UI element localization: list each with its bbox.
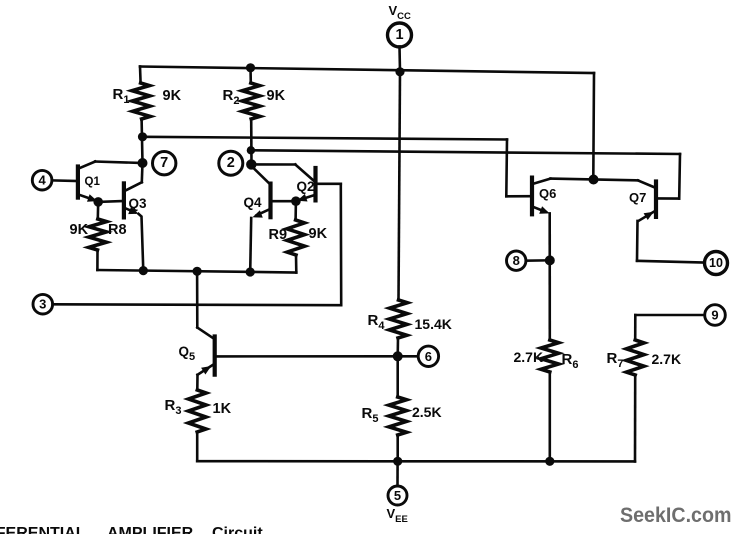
svg-text:2.7K: 2.7K bbox=[652, 351, 682, 367]
transistor Q6 collector arrow bbox=[539, 206, 549, 213]
resistor R4 bbox=[389, 300, 407, 338]
wire Q2 base vertical bbox=[339, 184, 342, 305]
svg-text:4: 4 bbox=[38, 173, 46, 188]
transistor Q1 base bar bbox=[76, 167, 80, 198]
svg-text:Q1: Q1 bbox=[85, 176, 101, 188]
transistor Q2 emitter diagonal bbox=[301, 195, 316, 200]
junction emitter bar / VCC drop bbox=[589, 175, 599, 185]
svg-text:Q6: Q6 bbox=[539, 186, 556, 201]
label R2 bbox=[223, 87, 240, 107]
transistor Q7 base bar bbox=[654, 182, 658, 217]
svg-text:15.4K: 15.4K bbox=[415, 316, 452, 332]
terminal 7 bbox=[153, 152, 176, 175]
label R7 value 2.7K bbox=[652, 351, 682, 367]
svg-text:5: 5 bbox=[394, 488, 401, 503]
svg-text:7: 7 bbox=[160, 155, 168, 171]
junction wire-C tap bbox=[247, 146, 255, 154]
junction Q2 emitter node bbox=[291, 196, 301, 206]
label Q6 bbox=[539, 186, 556, 201]
wire Q1 collector to node 7 bbox=[95, 162, 142, 164]
transistor Q2 base bar bbox=[313, 168, 317, 200]
terminal 5 bbox=[388, 486, 407, 505]
wire Q2 base lead bbox=[316, 183, 341, 186]
transistor Q4 base bar bbox=[268, 184, 272, 218]
transistor Q3 emitter diagonal bbox=[124, 208, 135, 213]
wire node7 to Q3 collector bbox=[141, 163, 144, 182]
wire Q6 base lead bbox=[506, 195, 531, 198]
transistor Q7 collector diagonal bbox=[639, 210, 657, 221]
wire node 8 stub bbox=[526, 259, 545, 262]
terminal 3 bbox=[33, 294, 53, 314]
wire Q3 emitter bend bbox=[139, 214, 144, 271]
svg-text:Q7: Q7 bbox=[629, 190, 646, 205]
wire C horizontal bbox=[251, 150, 680, 154]
svg-text:Q4: Q4 bbox=[244, 195, 263, 210]
junction top rail / center bbox=[395, 67, 404, 76]
label R5 bbox=[362, 405, 379, 425]
junction Q1 emitter node bbox=[93, 197, 103, 207]
transistor Q4 emitter arrow bbox=[253, 210, 263, 217]
wire Q4 base lead bbox=[271, 200, 296, 203]
label R7 bbox=[607, 350, 624, 370]
svg-text:2: 2 bbox=[227, 155, 235, 171]
label R9 value 9K bbox=[309, 226, 328, 242]
wire R7 top lead bbox=[634, 315, 637, 340]
wire Q4 emitter drop bbox=[250, 218, 251, 272]
label R8 bbox=[108, 222, 127, 238]
wire bottom rail bbox=[197, 460, 635, 463]
wire Q2 collector horizontal bbox=[251, 163, 295, 166]
svg-text:10: 10 bbox=[709, 256, 723, 270]
transistor Q3 collector diagonal bbox=[124, 182, 142, 191]
junction node 8 bbox=[545, 255, 555, 265]
transistor Q1 emitter arrow bbox=[87, 194, 97, 202]
transistor Q5 collector diagonal bbox=[197, 328, 214, 340]
label R6 bbox=[562, 351, 579, 371]
wire Q5 emitter lead bbox=[196, 375, 199, 390]
svg-text:9K: 9K bbox=[70, 222, 89, 238]
svg-text:1K: 1K bbox=[213, 401, 232, 417]
transistor Q6 base bar bbox=[530, 178, 534, 215]
wire top VCC rail bbox=[140, 67, 594, 74]
wire R5 bottom lead bbox=[396, 435, 399, 461]
label R3 value 1K bbox=[213, 401, 232, 417]
wire Q7 base lead bbox=[657, 197, 680, 200]
wire R5 top lead bbox=[396, 356, 399, 397]
label Q3 bbox=[129, 196, 148, 211]
node 2 junction bbox=[246, 159, 256, 169]
junction Q4 emitter / rail bbox=[246, 267, 255, 276]
resistor R7 bbox=[626, 340, 644, 375]
wire top rail right drop bbox=[592, 73, 595, 180]
svg-text:3: 3 bbox=[39, 297, 46, 312]
resistor R5 bbox=[389, 397, 407, 435]
wire R1 top lead bbox=[139, 67, 142, 84]
transistor Q1 collector diagonal bbox=[78, 162, 95, 169]
wire R6 bottom lead bbox=[548, 372, 551, 461]
label R4 value 15.4K bbox=[415, 316, 452, 332]
label Q1 bbox=[85, 176, 101, 188]
wire common emitter rail bbox=[97, 270, 296, 273]
resistor R6 bbox=[541, 340, 559, 372]
resistor R1 bbox=[132, 83, 150, 119]
junction bottom rail / node 5 bbox=[393, 457, 402, 466]
watermark SeekIC.com bbox=[620, 504, 732, 527]
wire input 4 to Q1 base bbox=[52, 179, 78, 182]
wire R7 bottom lead bbox=[634, 375, 637, 461]
wire Q3 base lead bbox=[98, 200, 124, 203]
label R1 bbox=[113, 86, 130, 106]
wire R9 top lead bbox=[294, 201, 297, 220]
label R9 bbox=[269, 227, 288, 243]
wire R1 bottom lead bbox=[140, 119, 143, 163]
wire R2 top lead bbox=[249, 68, 252, 83]
label Q2 bbox=[297, 179, 315, 194]
transistor Q4 emitter diagonal bbox=[257, 209, 271, 216]
svg-text:Q2: Q2 bbox=[297, 179, 315, 194]
wire R4 bottom lead bbox=[396, 338, 399, 356]
wire Q6-Q7 emitter bar bbox=[550, 179, 638, 181]
label Q4 bbox=[244, 195, 263, 210]
transistor Q7 emitter diagonal bbox=[638, 180, 656, 188]
label R8 value 9K bbox=[70, 222, 89, 238]
transistor Q6 collector diagonal bbox=[532, 206, 546, 212]
label R2 value 9K bbox=[267, 88, 286, 104]
wire Q7 collector drop bbox=[636, 221, 639, 261]
junction Q5 collector / rail bbox=[193, 267, 202, 276]
resistor R3 bbox=[188, 390, 206, 432]
terminal 6 bbox=[418, 346, 438, 366]
label R5 value 2.5K bbox=[412, 404, 442, 420]
caption DIFFERENTIAL AMPLIFIER Circuit bbox=[0, 525, 263, 539]
transistor Q2 emitter arrow bbox=[297, 194, 307, 202]
wire R8 top lead bbox=[97, 202, 100, 219]
terminal 8 bbox=[507, 251, 526, 270]
label R3 bbox=[165, 397, 182, 417]
transistor Q5 emitter diagonal bbox=[198, 364, 215, 375]
wire B horizontal bbox=[143, 137, 508, 140]
junction bottom rail / R6 bbox=[545, 457, 554, 466]
label R6 value 2.7K bbox=[514, 349, 544, 365]
transistor Q6 emitter diagonal bbox=[532, 179, 550, 185]
label R1 value 9K bbox=[163, 88, 182, 104]
resistor R9 bbox=[287, 220, 305, 255]
svg-text:8: 8 bbox=[513, 253, 520, 268]
svg-text:FFERENTIAL: FFERENTIAL bbox=[0, 525, 86, 534]
svg-text:R9: R9 bbox=[269, 227, 288, 243]
svg-text:9K: 9K bbox=[267, 88, 286, 104]
wire Q4 collector diagonal bbox=[251, 166, 270, 185]
wire terminal 9 lead bbox=[635, 314, 704, 317]
svg-text:Q3: Q3 bbox=[129, 196, 148, 211]
wire center vertical from VCC bbox=[399, 72, 401, 300]
terminal 1 bbox=[388, 23, 412, 47]
wire R8 bottom lead bbox=[96, 250, 99, 270]
wire R3 bottom lead bbox=[196, 432, 199, 461]
terminal 10 bbox=[705, 252, 728, 275]
svg-text:AMPLIFIER: AMPLIFIER bbox=[107, 525, 194, 534]
node VCC label bbox=[389, 3, 412, 22]
resistor R2 bbox=[242, 83, 260, 119]
wire Q6 collector vertical bbox=[548, 213, 551, 340]
svg-text:2.7K: 2.7K bbox=[514, 349, 544, 365]
transistor Q5 base bar bbox=[213, 337, 217, 375]
transistor Q3 base bar bbox=[122, 183, 126, 217]
transistor Q7 collector arrow bbox=[644, 212, 654, 220]
svg-text:6: 6 bbox=[425, 349, 432, 364]
svg-text:9K: 9K bbox=[163, 88, 182, 104]
transistor Q3 emitter arrow bbox=[128, 207, 138, 214]
wire node 6 stub bbox=[398, 355, 419, 358]
svg-text:SeekIC.com: SeekIC.com bbox=[620, 504, 732, 527]
wire Q7 to terminal 10 bbox=[637, 261, 704, 263]
terminal 9 bbox=[705, 305, 726, 326]
svg-text:1: 1 bbox=[395, 27, 403, 43]
node 6 junction bbox=[393, 351, 403, 361]
wire R2 bottom lead bbox=[250, 119, 253, 164]
node VEE label bbox=[387, 506, 408, 525]
wire B vertical drop bbox=[505, 140, 508, 197]
label R4 bbox=[368, 312, 386, 332]
wire input 3 horizontal bbox=[53, 303, 342, 307]
terminal 2 bbox=[219, 151, 243, 175]
svg-text:9K: 9K bbox=[309, 226, 328, 242]
junction wire-B tap bbox=[138, 132, 147, 141]
label Q5 bbox=[179, 344, 196, 363]
transistor Q1 emitter diagonal bbox=[78, 194, 95, 200]
svg-text:Circuit: Circuit bbox=[212, 525, 263, 534]
svg-text:R8: R8 bbox=[108, 222, 127, 238]
junction Q3 emitter / rail bbox=[139, 266, 148, 275]
node 7 junction bbox=[138, 158, 148, 168]
wire node 5 stub bbox=[396, 461, 399, 486]
wire Q5 collector vertical bbox=[196, 271, 199, 327]
wire R9 bottom lead bbox=[295, 255, 298, 273]
terminal 4 bbox=[32, 170, 52, 190]
wire C vertical drop bbox=[678, 154, 681, 199]
label Q7 bbox=[629, 190, 646, 205]
transistor Q5 emitter arrow bbox=[201, 366, 211, 375]
wire Q2 collector diagonal bbox=[295, 165, 315, 183]
resistor R8 bbox=[89, 219, 107, 250]
wire Q5 base lead to node 6 bbox=[215, 355, 398, 358]
junction top rail / R2 bbox=[246, 63, 255, 72]
wire VCC stub bbox=[398, 47, 401, 72]
svg-text:9: 9 bbox=[711, 308, 718, 323]
svg-text:2.5K: 2.5K bbox=[412, 404, 442, 420]
